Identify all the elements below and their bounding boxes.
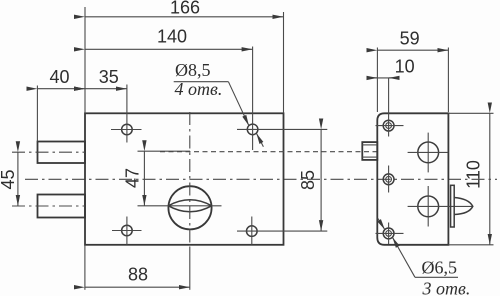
dim 166/140/35 extension left (body edge extended)	[84, 7, 86, 113]
svg-text:85: 85	[298, 170, 318, 190]
bolt 1 hidden link line to side view	[160, 151, 377, 153]
svg-text:3 отв.: 3 отв.	[422, 279, 471, 296]
hole H1 top-left	[122, 124, 133, 135]
screw hole S3 cross	[376, 232, 404, 234]
dim 47 line	[143, 151, 145, 206]
svg-text:166: 166	[170, 0, 200, 18]
svg-text:Ø8,5: Ø8,5	[175, 60, 211, 80]
keyhole slot line	[138, 205, 222, 207]
main axis centerline	[25, 178, 497, 180]
bolt 1 (upper deadbolt, front view)	[38, 142, 86, 164]
keyhole vertical centerline	[189, 112, 191, 247]
dim 88 extension right (keyhole axis extended)	[189, 247, 191, 290]
screw hole S1	[383, 120, 394, 131]
hole H2 top-right	[247, 124, 258, 135]
dim 110 line	[489, 113, 491, 245]
lock body front view outline	[85, 113, 284, 245]
dim 35 line	[85, 88, 127, 90]
svg-text:59: 59	[400, 29, 420, 49]
bolt stub inner line top	[362, 144, 377, 146]
dim 59 extension right	[447, 48, 449, 113]
label D8,5 leader arrow	[228, 82, 249, 126]
bolt stub inner line bottom	[362, 156, 377, 158]
label D6,5 shelf	[415, 276, 458, 278]
svg-text:40: 40	[49, 67, 69, 87]
dim 166 extension right	[283, 12, 285, 113]
big circle B1 cross	[408, 151, 449, 153]
screw hole S2	[383, 174, 394, 185]
hole H1 cross	[111, 129, 142, 131]
latch bolt nose	[454, 198, 473, 215]
svg-text:140: 140	[157, 27, 187, 47]
side view bolt stub	[362, 142, 377, 160]
svg-text:Ø6,5: Ø6,5	[422, 258, 458, 278]
keyhole lens upper arc	[168, 200, 211, 206]
svg-text:88: 88	[128, 265, 148, 285]
label D6,5 leader arrow	[392, 237, 415, 277]
dim 10 arrow left	[368, 77, 377, 79]
big circle B2 (latch hub)	[418, 196, 439, 217]
dim 85 line	[320, 129, 322, 231]
label D8,5 opposite arrow	[256, 133, 263, 147]
screw hole S1 cross	[376, 125, 404, 127]
svg-text:35: 35	[99, 67, 119, 87]
side view case outline	[377, 113, 448, 245]
dim 40 extension left	[36, 86, 38, 142]
latch lip plate	[451, 185, 455, 227]
keyhole lens lower arc	[168, 206, 211, 212]
dim 10 arrow right	[389, 77, 398, 79]
dim 110 extension bottom	[448, 244, 493, 246]
bolt 1 axis extension (47 dim attach)	[138, 150, 191, 152]
dim 59 extension left	[376, 48, 378, 113]
bolt 1 centerline	[12, 151, 85, 153]
screw hole S3	[383, 228, 394, 239]
hole H2 cross	[237, 128, 327, 130]
svg-text:47: 47	[123, 168, 143, 188]
svg-text:110: 110	[464, 160, 484, 189]
dim 166 line	[85, 16, 284, 18]
big circle B2 cross horizontal to latch tip	[408, 205, 473, 207]
dim 88 extension left	[84, 245, 86, 290]
bolt 2 (lower deadbolt, front view)	[38, 195, 86, 218]
svg-text:10: 10	[395, 57, 415, 77]
bolt 2 centerline	[12, 205, 85, 207]
dim 88 line	[85, 286, 190, 288]
dim 45 line	[17, 152, 19, 206]
dim 10 line	[367, 77, 395, 79]
hole H4 bottom-right	[247, 226, 258, 237]
dim 40 line	[37, 88, 85, 90]
label D6,5 opposite arrow	[378, 219, 385, 230]
screw hole S2 vertical cross	[388, 166, 390, 193]
hole H3 bottom-left	[122, 225, 133, 236]
keyhole cylinder circle	[168, 186, 211, 229]
dim 59 line	[377, 49, 448, 51]
big circle B1 (bolt hub)	[418, 142, 439, 163]
dim 110 extension top	[448, 112, 493, 114]
dim 140 line	[85, 48, 253, 50]
svg-text:45: 45	[0, 169, 18, 189]
hole H4 cross	[237, 230, 327, 232]
label D8,5 shelf	[174, 81, 229, 83]
hole H3 cross	[112, 230, 142, 232]
